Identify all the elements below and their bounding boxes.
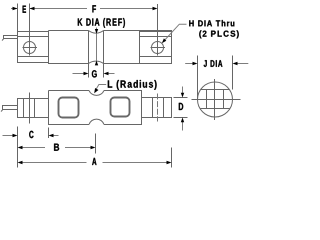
arrowhead F right xyxy=(153,7,158,10)
E dimension extension lines xyxy=(18,4,30,56)
label H DIA Thru xyxy=(189,20,234,26)
plan view pocket 1 xyxy=(59,98,79,118)
G dimension lines xyxy=(73,73,115,75)
arrowhead D bottom (up) xyxy=(181,118,184,123)
plan view pocket 2 xyxy=(111,98,130,117)
arrowhead E left xyxy=(13,7,18,10)
K DIA leader line xyxy=(96,28,98,64)
plan view cable fitting xyxy=(18,99,49,118)
F dimension line xyxy=(34,8,154,10)
J DIA extension lines xyxy=(198,56,233,100)
plan view fitting centerline xyxy=(29,93,31,124)
A dimension line xyxy=(22,162,168,164)
A right extension line xyxy=(171,148,173,168)
label K DIA (REF) xyxy=(78,18,125,28)
arrowhead K leader bottom (up) xyxy=(95,61,98,66)
label A xyxy=(92,158,96,165)
B dimension line xyxy=(22,147,92,149)
arrowhead C left xyxy=(13,134,18,137)
arrowhead B right xyxy=(91,146,96,149)
C right extension line xyxy=(48,128,50,139)
plan view main body with waist xyxy=(49,91,142,125)
dimension lines (gray) xyxy=(3,9,249,163)
plan view threaded stub xyxy=(142,98,172,118)
label D xyxy=(179,103,183,110)
D dimension arrow lines xyxy=(182,87,184,131)
arrowhead G left xyxy=(84,72,89,75)
arrowhead D top (down) xyxy=(181,93,184,98)
B right extension line xyxy=(95,134,97,154)
arrowhead J left xyxy=(193,62,198,65)
arrowhead C right xyxy=(49,134,54,137)
arrowhead L leader xyxy=(94,88,98,93)
label E xyxy=(23,6,26,13)
C dimension line xyxy=(3,135,59,137)
arrowhead A left xyxy=(18,161,23,164)
arrowhead K leader top (down) xyxy=(95,29,98,34)
arrowhead H DIA leader xyxy=(162,38,167,43)
side view beam body with notches xyxy=(49,31,172,64)
wire: plan view cable xyxy=(1,105,18,112)
H DIA leader xyxy=(163,24,186,41)
J DIA dimension lines xyxy=(185,63,248,65)
L (Radius) leader xyxy=(95,85,106,92)
side view left block xyxy=(18,32,49,63)
F right extension line xyxy=(157,4,159,40)
label B xyxy=(54,144,59,151)
arrowhead A right xyxy=(167,161,172,164)
label (2 PLCS) xyxy=(199,30,238,38)
side view notch slot verticals (G extension lines) xyxy=(89,31,104,78)
D extension lines xyxy=(174,98,188,118)
label C xyxy=(29,131,33,138)
wire: side view cable lines xyxy=(2,35,18,41)
arrowhead J right xyxy=(233,62,238,65)
label G xyxy=(92,70,97,77)
end view circle (J DIA) xyxy=(192,79,241,120)
hole right (H DIA) xyxy=(151,40,166,56)
arrowhead G right xyxy=(104,72,109,75)
C/B/A left extension line xyxy=(17,127,19,168)
side view right block xyxy=(140,31,172,64)
label L (Radius) xyxy=(108,80,157,90)
label J DIA xyxy=(204,60,223,67)
arrowhead F left / E right xyxy=(30,7,35,10)
E dimension line xyxy=(11,8,34,10)
hole left (H DIA) xyxy=(23,42,38,54)
plan view stub centerline (dashed) xyxy=(157,94,159,122)
label F xyxy=(92,5,96,12)
arrowhead B left xyxy=(18,146,23,149)
